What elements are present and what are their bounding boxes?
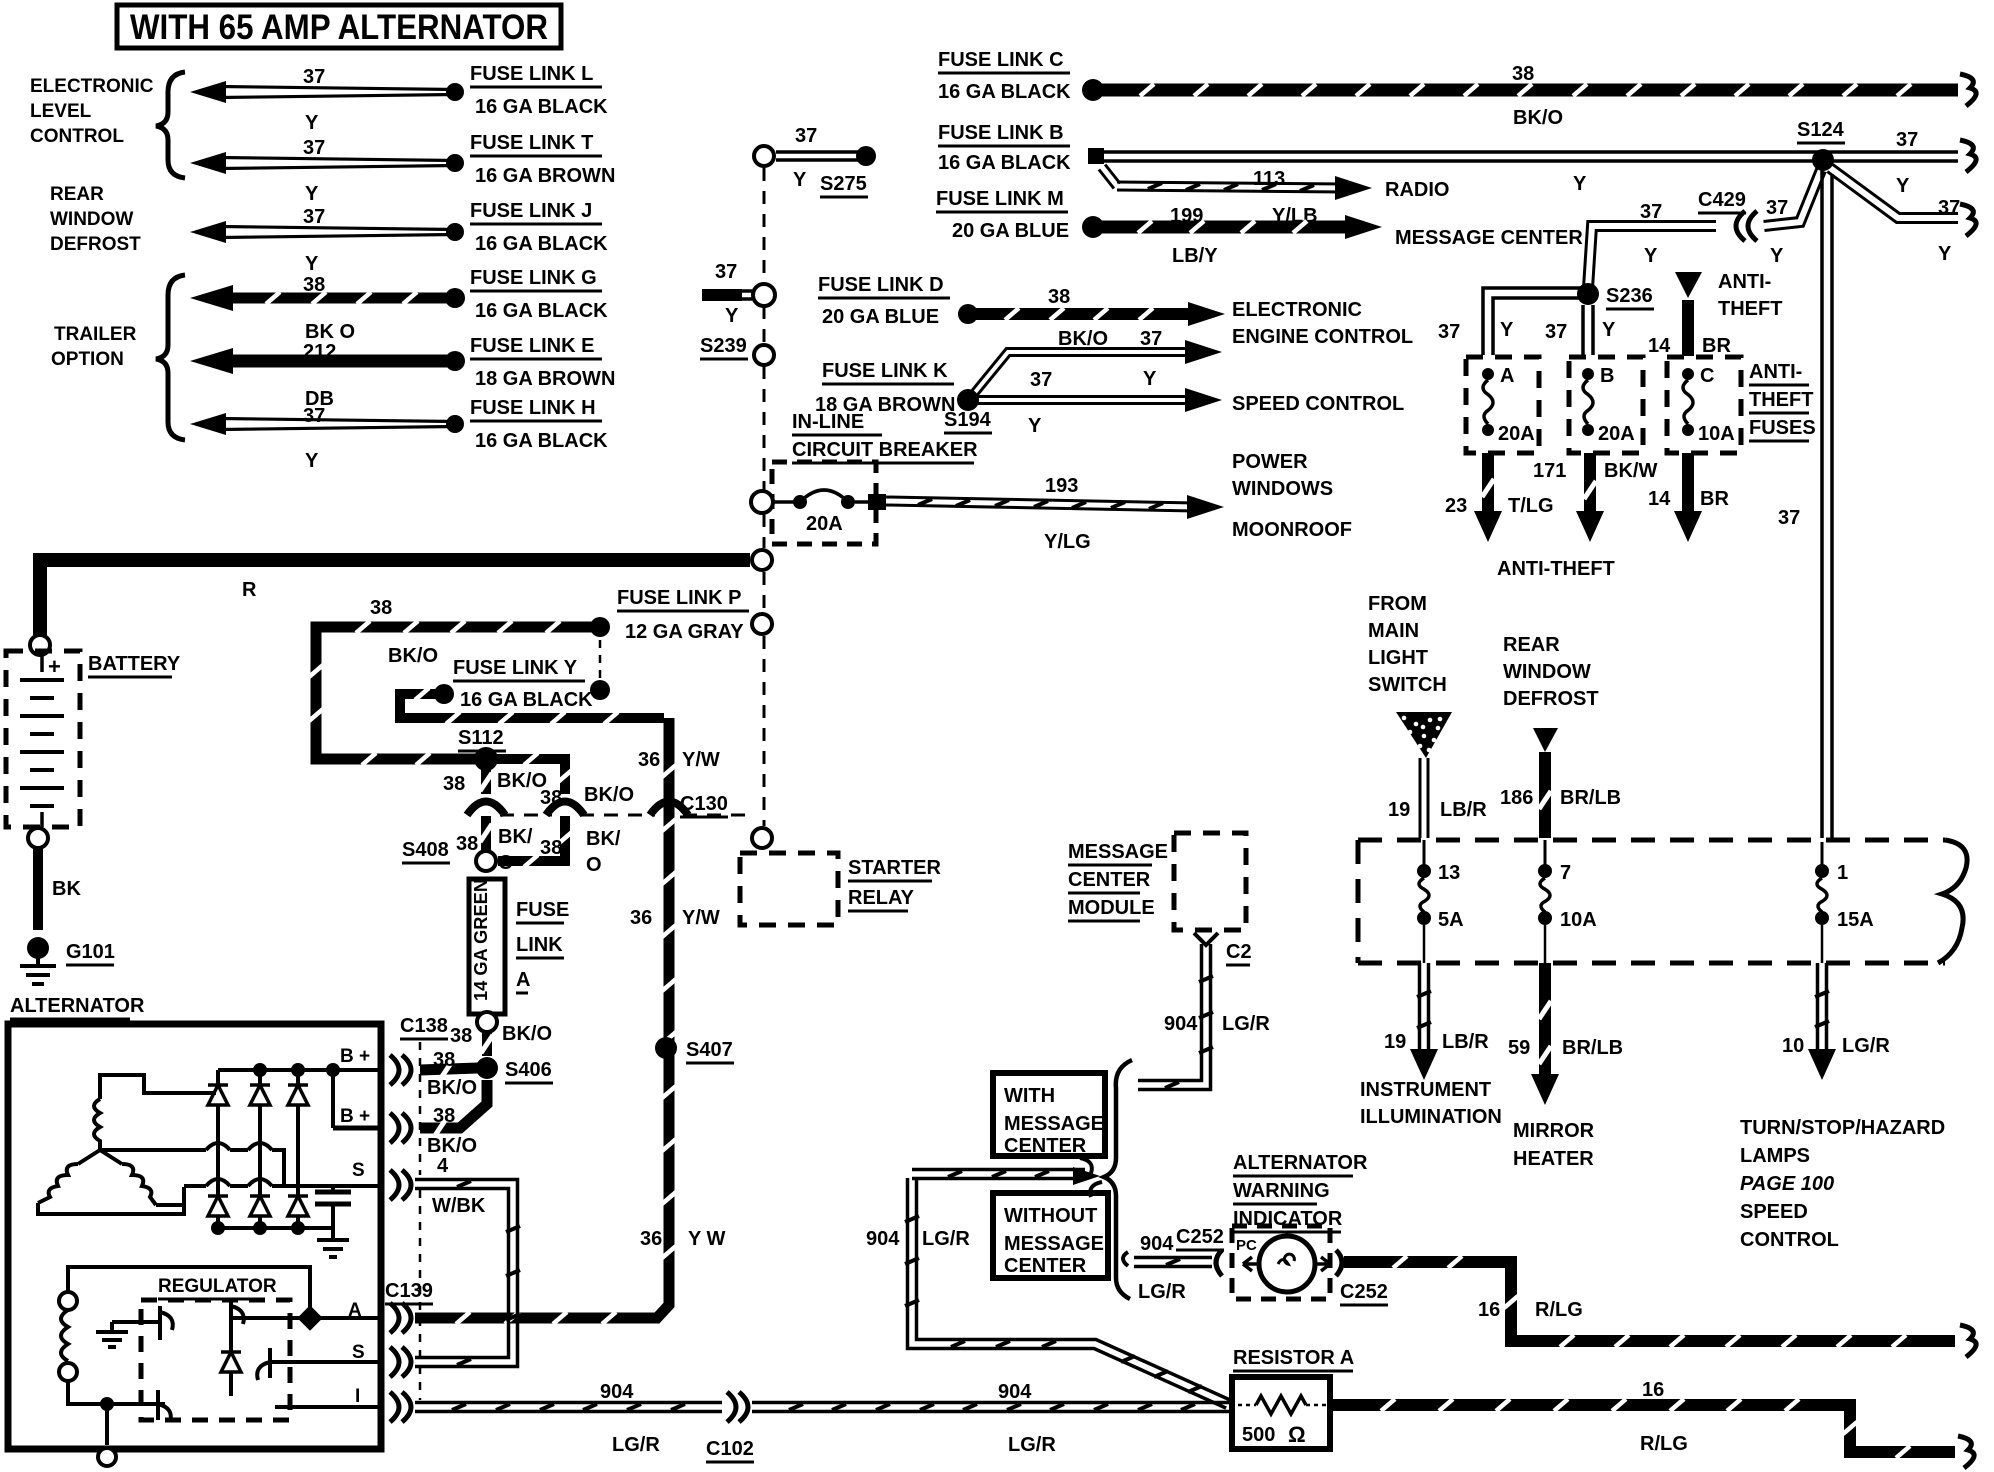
label FUSE LINK J 16 GA BLACK <box>470 200 608 255</box>
svg-text:S: S <box>352 1160 365 1181</box>
fuse link C wire 38 BK/O <box>938 49 1976 129</box>
svg-text:R/LG: R/LG <box>1535 1299 1583 1321</box>
svg-text:DEFROST: DEFROST <box>1503 688 1599 710</box>
label FUSE LINK E 18 GA BROWN <box>470 335 615 390</box>
svg-text:BK/W: BK/W <box>1604 460 1657 482</box>
terminal B+ (top) <box>333 1046 381 1070</box>
svg-text:G101: G101 <box>66 941 115 963</box>
svg-text:38: 38 <box>433 1049 455 1071</box>
svg-text:20A: 20A <box>806 513 843 535</box>
wire 19 LB/R to instrument illumination <box>1360 963 1502 1128</box>
svg-text:WITH: WITH <box>1004 1085 1055 1107</box>
circle junction on dashed line near fuse link P <box>752 614 772 634</box>
splice S124 <box>1797 119 1845 171</box>
svg-text:37: 37 <box>303 405 325 427</box>
svg-text:S406: S406 <box>505 1059 552 1081</box>
svg-text:CENTER: CENTER <box>1004 1255 1087 1277</box>
wire FUSE LINK J circuit 37 Y <box>190 206 464 275</box>
svg-text:16 GA BLACK: 16 GA BLACK <box>475 96 608 118</box>
wire R from battery to harness <box>30 550 772 655</box>
svg-text:REAR: REAR <box>50 184 104 205</box>
alternator stator windings <box>38 1075 216 1214</box>
wire 38 BK/O S112 to S408 right branch <box>496 753 634 876</box>
svg-text:37: 37 <box>1545 321 1567 343</box>
svg-text:20 GA BLUE: 20 GA BLUE <box>822 306 939 328</box>
label WITHOUT MESSAGE CENTER <box>993 1193 1108 1278</box>
wire 37 Y to engine control (second) <box>969 340 1222 398</box>
svg-text:10A: 10A <box>1560 909 1597 931</box>
svg-text:193: 193 <box>1045 475 1078 497</box>
wire 10 LG/R to turn/stop/hazard lamps <box>1740 963 1945 1251</box>
svg-text:Y: Y <box>1896 175 1910 197</box>
splice S406 <box>476 1057 553 1083</box>
resistor A 500 ohm <box>1232 1347 1354 1449</box>
svg-text:BK/O: BK/O <box>427 1077 477 1099</box>
svg-text:904: 904 <box>1140 1233 1174 1255</box>
svg-text:199: 199 <box>1170 205 1203 227</box>
svg-text:DEFROST: DEFROST <box>50 234 141 255</box>
svg-text:C102: C102 <box>706 1438 754 1460</box>
svg-text:S407: S407 <box>686 1039 733 1061</box>
svg-text:LEVEL: LEVEL <box>30 101 92 122</box>
svg-text:7: 7 <box>1560 862 1571 884</box>
svg-text:SPEED CONTROL: SPEED CONTROL <box>1232 393 1404 415</box>
svg-text:20 GA BLUE: 20 GA BLUE <box>952 220 1069 242</box>
svg-text:ILLUMINATION: ILLUMINATION <box>1360 1106 1502 1128</box>
svg-text:18 GA BROWN: 18 GA BROWN <box>475 368 615 390</box>
svg-text:ENGINE CONTROL: ENGINE CONTROL <box>1232 326 1413 348</box>
connector C138 chevrons <box>390 1015 448 1200</box>
svg-text:19: 19 <box>1384 1031 1406 1053</box>
svg-text:FUSE LINK K: FUSE LINK K <box>822 360 948 382</box>
svg-text:SWITCH: SWITCH <box>1368 674 1447 696</box>
wire 904 LG/R into indicator through C252 <box>1123 1226 1388 1305</box>
svg-text:LAMPS: LAMPS <box>1740 1145 1810 1167</box>
svg-text:10: 10 <box>1782 1035 1804 1057</box>
svg-text:15A: 15A <box>1837 909 1874 931</box>
ground G101 <box>20 937 115 984</box>
svg-text:13: 13 <box>1438 862 1460 884</box>
svg-text:CONTROL: CONTROL <box>30 126 124 147</box>
svg-text:37: 37 <box>795 125 817 147</box>
svg-text:38: 38 <box>456 833 478 855</box>
svg-text:FUSE LINK J: FUSE LINK J <box>470 200 592 222</box>
svg-text:LG/R: LG/R <box>1138 1281 1186 1303</box>
splice S112 <box>458 727 506 771</box>
svg-text:59: 59 <box>1508 1037 1530 1059</box>
wire 904 LG/R without-message-center loop <box>866 1178 1230 1408</box>
label ANTI-THEFT FUSES <box>1749 361 1816 441</box>
label FUSE LINK H 16 GA BLACK <box>470 397 608 452</box>
alternator phase tap lines <box>100 1143 381 1186</box>
svg-text:FUSE: FUSE <box>516 899 569 921</box>
svg-text:TRAILER: TRAILER <box>54 324 137 345</box>
svg-text:Y/LG: Y/LG <box>1044 531 1091 553</box>
svg-text:Y: Y <box>793 169 807 191</box>
svg-text:S239: S239 <box>700 335 747 357</box>
svg-text:14: 14 <box>1648 335 1671 357</box>
fuse 13 / 5A <box>1417 840 1464 963</box>
wire 113 Y/LB to radio <box>1099 165 1450 228</box>
svg-text:WITH 65 AMP ALTERNATOR: WITH 65 AMP ALTERNATOR <box>130 8 548 47</box>
svg-text:B +: B + <box>340 1106 370 1127</box>
svg-text:FUSE LINK M: FUSE LINK M <box>936 188 1064 210</box>
svg-text:RESISTOR A: RESISTOR A <box>1233 1347 1354 1369</box>
svg-text:LIGHT: LIGHT <box>1368 647 1428 669</box>
svg-text:S275: S275 <box>820 173 867 195</box>
svg-text:37: 37 <box>303 66 325 88</box>
svg-text:WINDOWS: WINDOWS <box>1232 478 1333 500</box>
svg-text:16 GA BLACK: 16 GA BLACK <box>938 81 1071 103</box>
alternator capacitor <box>315 1186 351 1228</box>
svg-text:171: 171 <box>1533 460 1566 482</box>
svg-text:186: 186 <box>1500 787 1533 809</box>
svg-text:FUSE LINK H: FUSE LINK H <box>470 397 596 419</box>
svg-text:Y: Y <box>1573 173 1587 195</box>
svg-text:38: 38 <box>303 274 325 296</box>
svg-text:FUSE LINK T: FUSE LINK T <box>470 132 593 154</box>
svg-text:16: 16 <box>1642 1379 1664 1401</box>
svg-text:38: 38 <box>540 787 562 809</box>
svg-text:BR: BR <box>1700 488 1729 510</box>
svg-text:POWER: POWER <box>1232 451 1308 473</box>
svg-text:MAIN: MAIN <box>1368 620 1419 642</box>
svg-text:36: 36 <box>630 907 652 929</box>
fuse link D wire 38 BK/O to electronic engine control <box>818 274 1225 350</box>
svg-text:Y: Y <box>305 253 319 275</box>
svg-text:STARTER: STARTER <box>848 857 942 879</box>
svg-text:20A: 20A <box>1498 423 1535 445</box>
svg-text:BATTERY: BATTERY <box>88 653 181 675</box>
svg-text:W/BK: W/BK <box>432 1195 486 1217</box>
svg-text:113: 113 <box>1253 168 1285 190</box>
fuse 7 / 10A <box>1538 840 1597 963</box>
wire 38 BK/O fuse link A to S406 <box>450 1023 552 1056</box>
svg-text:A: A <box>1500 365 1514 387</box>
alternator internal ground <box>317 1228 349 1257</box>
svg-text:S124: S124 <box>1797 119 1845 141</box>
fuse link Y wire 16 GA BLACK <box>400 657 664 724</box>
svg-text:37: 37 <box>1140 328 1162 350</box>
label ANTI-THEFT destination <box>1497 558 1615 580</box>
svg-text:REGULATOR: REGULATOR <box>158 1276 277 1297</box>
anti-theft fuse A 20A <box>1466 357 1539 453</box>
svg-text:BK/O: BK/O <box>502 1023 552 1045</box>
svg-text:38: 38 <box>433 1105 455 1127</box>
svg-text:36: 36 <box>640 1228 662 1250</box>
alternator warning indicator <box>1232 1152 1368 1299</box>
svg-text:PAGE 100: PAGE 100 <box>1740 1173 1834 1195</box>
svg-text:Y: Y <box>1143 368 1157 390</box>
svg-text:CENTER: CENTER <box>1068 869 1151 891</box>
svg-text:37: 37 <box>1030 369 1052 391</box>
anti-theft fuse B 20A <box>1569 357 1643 453</box>
svg-text:LG/R: LG/R <box>1008 1434 1056 1456</box>
svg-text:S112: S112 <box>458 727 504 749</box>
svg-text:904: 904 <box>998 1381 1032 1403</box>
svg-text:Y: Y <box>1938 243 1952 265</box>
svg-text:BR: BR <box>1702 335 1731 357</box>
svg-text:FUSE LINK Y: FUSE LINK Y <box>453 657 578 679</box>
svg-text:RELAY: RELAY <box>848 887 915 909</box>
svg-text:S194: S194 <box>944 409 992 431</box>
fuse link P 12 GA GRAY <box>590 587 749 700</box>
svg-text:ANTI-: ANTI- <box>1749 361 1802 383</box>
svg-text:37: 37 <box>303 137 325 159</box>
svg-text:Ω: Ω <box>1288 1422 1306 1447</box>
wire 59 BR/LB to mirror heater <box>1508 963 1623 1170</box>
in-line circuit breaker 20A <box>751 411 978 544</box>
svg-text:Y: Y <box>1028 415 1042 437</box>
svg-text:23: 23 <box>1445 495 1467 517</box>
svg-text:16 GA BLACK: 16 GA BLACK <box>460 689 593 711</box>
svg-text:C: C <box>1700 365 1714 387</box>
label FUSE LINK G 16 GA BLACK <box>470 267 608 322</box>
svg-text:LB/R: LB/R <box>1442 1031 1489 1053</box>
label FUSE LINK L 16 GA BLACK <box>470 63 608 118</box>
svg-text:MESSAGE: MESSAGE <box>1004 1113 1104 1135</box>
svg-text:WINDOW: WINDOW <box>50 209 133 230</box>
wire 38 BK/O B+ second to S406 <box>420 1080 487 1177</box>
svg-text:Y: Y <box>725 305 739 327</box>
svg-text:Y: Y <box>1602 319 1616 341</box>
terminal A with junction <box>297 1300 381 1331</box>
svg-text:BK/: BK/ <box>586 828 621 850</box>
svg-text:FUSE LINK L: FUSE LINK L <box>470 63 593 85</box>
wire FUSE LINK G circuit 38 BK O <box>190 274 465 343</box>
svg-text:B +: B + <box>340 1046 370 1067</box>
label REAR WINDOW DEFROST <box>50 184 141 255</box>
svg-text:WITHOUT: WITHOUT <box>1004 1205 1097 1227</box>
svg-text:MESSAGE: MESSAGE <box>1068 841 1168 863</box>
svg-text:FUSE LINK G: FUSE LINK G <box>470 267 597 289</box>
rear window defrost feed arrow <box>1500 634 1621 838</box>
svg-text:CONTROL: CONTROL <box>1740 1229 1839 1251</box>
svg-text:500: 500 <box>1242 1424 1275 1446</box>
svg-text:37: 37 <box>303 206 325 228</box>
svg-text:S408: S408 <box>402 839 449 861</box>
svg-text:MODULE: MODULE <box>1068 897 1155 919</box>
svg-text:Y/W: Y/W <box>682 907 720 929</box>
wire FUSE LINK H circuit 37 Y <box>190 405 464 472</box>
svg-text:Y: Y <box>305 112 319 134</box>
svg-text:BK/O: BK/O <box>1058 328 1108 350</box>
svg-text:S236: S236 <box>1606 285 1653 307</box>
wire BK battery to ground G101 <box>28 828 81 930</box>
fuse link K wire 37 Y to speed control <box>815 360 1222 437</box>
svg-text:38: 38 <box>443 773 465 795</box>
svg-text:16 GA BLACK: 16 GA BLACK <box>475 300 608 322</box>
fuse panel (dashed) with fuses 13/5A 7/10A 1/15A <box>1358 840 1967 963</box>
svg-text:T/LG: T/LG <box>1508 495 1554 517</box>
splice S275 with wire 37 Y <box>754 125 876 197</box>
svg-text:CENTER: CENTER <box>1004 1135 1087 1157</box>
field coil <box>59 1267 310 1466</box>
svg-text:BK: BK <box>52 878 81 900</box>
svg-text:904: 904 <box>866 1228 900 1250</box>
svg-text:37: 37 <box>1938 197 1960 219</box>
svg-text:1: 1 <box>1837 862 1848 884</box>
dashed harness line from S275 down to starter relay <box>763 168 766 826</box>
svg-text:16 GA BROWN: 16 GA BROWN <box>475 165 615 187</box>
wire 19 LB/R from main light switch to fuse panel <box>1388 758 1487 838</box>
svg-text:ALTERNATOR: ALTERNATOR <box>10 995 145 1017</box>
wire FUSE LINK E circuit 212 DB <box>190 341 465 410</box>
svg-text:BK/O: BK/O <box>388 645 438 667</box>
label FUSE LINK T 16 GA BROWN <box>470 132 615 187</box>
svg-text:O: O <box>586 854 602 876</box>
svg-text:FUSE LINK D: FUSE LINK D <box>818 274 944 296</box>
svg-text:THEFT: THEFT <box>1718 298 1782 320</box>
svg-text:Y: Y <box>305 450 319 472</box>
svg-text:MOONROOF: MOONROOF <box>1232 519 1352 541</box>
label electronic engine control / speed control <box>1232 299 1413 415</box>
svg-text:FUSE LINK B: FUSE LINK B <box>938 122 1064 144</box>
brace electronic level control <box>156 72 185 178</box>
connector C139 chevrons <box>385 1190 433 1422</box>
terminal B+ (second) <box>333 1070 381 1128</box>
svg-text:SPEED: SPEED <box>1740 1201 1808 1223</box>
wire 37 Y from S236 to anti-theft fuse A <box>1438 288 1588 355</box>
regulator <box>141 1276 290 1420</box>
svg-text:37: 37 <box>1438 321 1460 343</box>
svg-text:OPTION: OPTION <box>51 349 124 370</box>
wire 904 LG/R with-message-center path <box>912 1167 1100 1185</box>
svg-text:LG/R: LG/R <box>1222 1013 1270 1035</box>
fuse link P wire 38 BK/O loop <box>309 597 600 765</box>
svg-text:20A: 20A <box>1598 423 1635 445</box>
svg-text:INSTRUMENT: INSTRUMENT <box>1360 1079 1491 1101</box>
svg-text:LG/R: LG/R <box>612 1434 660 1456</box>
svg-text:FUSE LINK P: FUSE LINK P <box>617 587 741 609</box>
svg-text:FROM: FROM <box>1368 593 1427 615</box>
svg-text:19: 19 <box>1388 799 1410 821</box>
wire 193 Y/LG to power windows / moonroof <box>886 451 1352 553</box>
svg-text:LB/Y: LB/Y <box>1172 245 1218 267</box>
wire 904 LG/R from regulator I through C102 <box>415 1381 1232 1462</box>
starter relay (dashed box) <box>740 828 942 925</box>
svg-text:R: R <box>242 579 257 601</box>
terminal S (stator) <box>352 1160 365 1181</box>
fuse 1 / 15A <box>1815 842 1874 963</box>
svg-text:38: 38 <box>1512 63 1534 85</box>
svg-text:904: 904 <box>600 1381 634 1403</box>
svg-text:CIRCUIT BREAKER: CIRCUIT BREAKER <box>792 439 978 461</box>
svg-text:37: 37 <box>1766 197 1788 219</box>
terminal S (regulator) <box>275 1342 381 1363</box>
svg-text:37: 37 <box>1778 507 1800 529</box>
wire 171 BK/W from fuse B to anti-theft <box>1533 453 1657 542</box>
svg-text:36: 36 <box>638 749 660 771</box>
wire 23 T/LG from fuse A to anti-theft <box>1445 453 1554 542</box>
battery <box>6 651 181 827</box>
wire 38 BK/O S112 to S408 left branch <box>443 770 547 874</box>
svg-text:LG/R: LG/R <box>1842 1035 1890 1057</box>
label ELECTRONIC LEVEL CONTROL <box>30 76 154 147</box>
svg-text:WARNING: WARNING <box>1233 1180 1330 1202</box>
svg-text:FUSE LINK E: FUSE LINK E <box>470 335 594 357</box>
svg-text:BR/LB: BR/LB <box>1562 1037 1623 1059</box>
brace trailer option <box>156 275 185 440</box>
alternator rectifier diodes <box>208 1063 340 1235</box>
svg-text:FUSE LINK C: FUSE LINK C <box>938 49 1064 71</box>
wire 37 Y from S124 to right break <box>1827 164 1976 265</box>
splice S408 <box>402 839 496 871</box>
connector C130 dashed line <box>500 793 755 817</box>
svg-text:ALTERNATOR: ALTERNATOR <box>1233 1152 1368 1174</box>
wire FUSE LINK T circuit 37 Y <box>190 137 464 205</box>
svg-text:R/LG: R/LG <box>1640 1433 1688 1455</box>
splice S239 with wire 37 Y stub <box>700 261 775 365</box>
svg-text:MESSAGE: MESSAGE <box>1004 1233 1104 1255</box>
svg-text:MIRROR: MIRROR <box>1513 1120 1595 1142</box>
svg-text:MESSAGE CENTER: MESSAGE CENTER <box>1395 227 1583 249</box>
anti-theft fuse C 10A <box>1667 357 1741 453</box>
fuse link B wire 37 Y through splice S124 <box>938 122 1976 197</box>
svg-text:BK/: BK/ <box>498 826 533 848</box>
svg-text:FUSES: FUSES <box>1749 417 1816 439</box>
svg-text:16 GA BLACK: 16 GA BLACK <box>938 152 1071 174</box>
svg-text:38: 38 <box>540 837 562 859</box>
from main light switch feed (stippled funnel) <box>1368 593 1452 758</box>
svg-text:Y W: Y W <box>688 1228 726 1250</box>
svg-text:ELECTRONIC: ELECTRONIC <box>1232 299 1362 321</box>
svg-text:38: 38 <box>370 597 392 619</box>
svg-text:A: A <box>516 969 530 991</box>
message center module <box>1068 833 1252 965</box>
svg-text:C252: C252 <box>1340 1281 1388 1303</box>
svg-text:37: 37 <box>715 261 737 283</box>
svg-text:LG/R: LG/R <box>922 1228 970 1250</box>
terminal I <box>275 1386 381 1407</box>
junction brace for message center options <box>1080 1060 1132 1299</box>
svg-text:16 GA BLACK: 16 GA BLACK <box>475 430 608 452</box>
splice S407 <box>655 1037 734 1063</box>
svg-text:Y: Y <box>305 183 319 205</box>
svg-text:HEATER: HEATER <box>1513 1148 1594 1170</box>
svg-text:C138: C138 <box>400 1015 448 1037</box>
svg-text:WINDOW: WINDOW <box>1503 661 1591 683</box>
svg-text:Y/W: Y/W <box>682 749 720 771</box>
svg-text:ELECTRONIC: ELECTRONIC <box>30 76 154 97</box>
svg-text:B: B <box>1600 365 1614 387</box>
svg-text:14: 14 <box>1648 488 1671 510</box>
svg-text:14 GA GREEN: 14 GA GREEN <box>471 879 491 1001</box>
regulator internals <box>96 1302 310 1422</box>
svg-text:212: 212 <box>303 341 336 363</box>
svg-text:+: + <box>48 654 61 679</box>
svg-text:C429: C429 <box>1698 189 1746 211</box>
svg-text:BK/O: BK/O <box>1513 107 1563 129</box>
wire 14 BR from fuse C to anti-theft <box>1648 453 1729 542</box>
wire 36 Y/W vertical from fuse link Y to alternator A terminal <box>415 718 726 1324</box>
wire 16 R/LG from resistor to right break <box>1330 1379 1974 1468</box>
label WITH MESSAGE CENTER <box>993 1073 1105 1157</box>
svg-text:38: 38 <box>450 1025 472 1047</box>
svg-text:ANTI-THEFT: ANTI-THEFT <box>1497 558 1615 580</box>
svg-text:ANTI-: ANTI- <box>1718 271 1771 293</box>
svg-text:37: 37 <box>1640 201 1662 223</box>
svg-text:RADIO: RADIO <box>1385 179 1449 201</box>
svg-text:LINK: LINK <box>516 934 563 956</box>
svg-text:S: S <box>352 1342 365 1363</box>
svg-text:10A: 10A <box>1698 423 1735 445</box>
svg-text:BK/O: BK/O <box>584 784 634 806</box>
wire 37 Y vertical from S124 to fuse panel <box>1778 170 1832 838</box>
svg-text:C139: C139 <box>385 1280 433 1302</box>
svg-text:16: 16 <box>1478 1299 1500 1321</box>
wire 37 Y from S236 to anti-theft fuse B <box>1545 305 1616 355</box>
